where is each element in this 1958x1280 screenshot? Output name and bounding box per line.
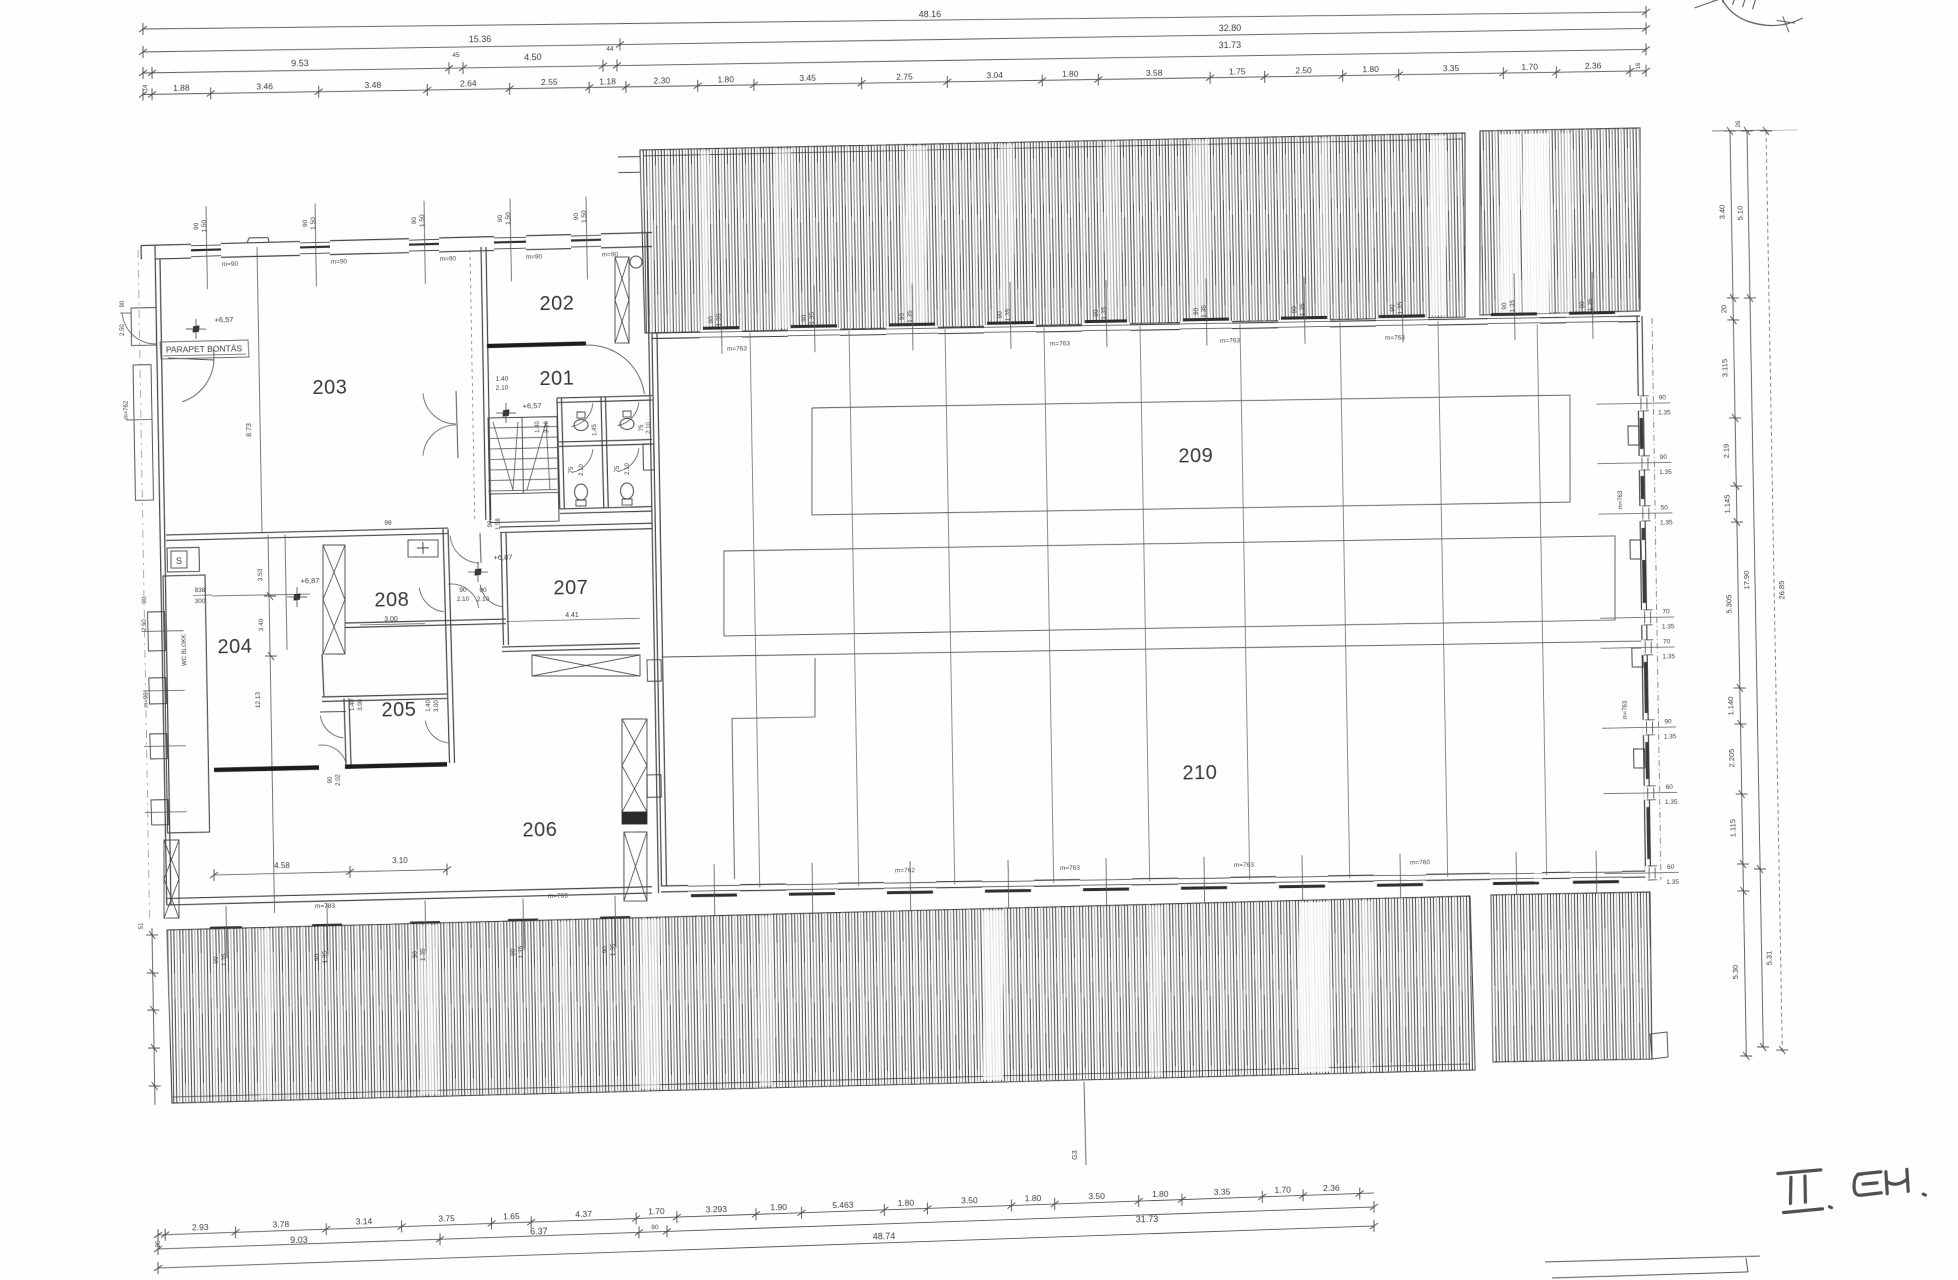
svg-text:202: 202 [539, 293, 574, 316]
svg-text:4.41: 4.41 [565, 612, 579, 619]
svg-text:1.35: 1.35 [322, 950, 329, 963]
svg-text:75: 75 [639, 424, 645, 431]
hall outer walls [651, 316, 1652, 895]
svg-text:1.50: 1.50 [505, 212, 512, 225]
svg-text:60: 60 [1667, 864, 1675, 871]
vertical reference line below bottom band [1071, 1082, 1086, 1165]
ventilation shaft right of 202 [614, 257, 631, 344]
svg-text:1.35: 1.35 [518, 945, 525, 958]
svg-text:1.35: 1.35 [1660, 519, 1673, 526]
svg-text:90: 90 [459, 587, 467, 594]
svg-text:3.10: 3.10 [544, 420, 550, 432]
door 205 right [425, 699, 448, 743]
svg-text:1.80: 1.80 [1152, 1189, 1169, 1199]
dimension line inside 206 [210, 855, 452, 881]
bottom dimension row 48.74 [154, 1220, 1379, 1274]
left wall upper window with arc [119, 299, 157, 345]
svg-text:G3: G3 [1072, 1150, 1079, 1160]
toilet block in 201 [557, 396, 654, 514]
svg-text:1.35: 1.35 [1662, 653, 1675, 660]
division line between 209 and 210 [662, 640, 1648, 658]
svg-text:1.80: 1.80 [1062, 69, 1079, 79]
svg-text:1.50: 1.50 [201, 219, 208, 232]
svg-text:1.140: 1.140 [1726, 697, 1735, 716]
door labels near stair hall [535, 419, 652, 437]
svg-text:3.50: 3.50 [961, 1195, 978, 1205]
svg-text:90: 90 [1193, 307, 1200, 315]
svg-text:1.35: 1.35 [1665, 799, 1678, 806]
svg-text:31.73: 31.73 [1219, 40, 1242, 50]
svg-text:2.50: 2.50 [142, 618, 148, 630]
hatched roof band bottom part B [1490, 892, 1668, 1062]
middle band rectangle [722, 535, 1616, 636]
svg-text:2.10: 2.10 [457, 596, 470, 603]
svg-text:m=90: m=90 [526, 253, 543, 260]
svg-text:300: 300 [194, 598, 205, 605]
svg-text:1.35: 1.35 [1299, 303, 1306, 316]
svg-text:12.13: 12.13 [255, 691, 262, 708]
svg-text:207: 207 [553, 577, 588, 600]
svg-text:90: 90 [1389, 304, 1396, 312]
svg-text:m=762: m=762 [124, 400, 130, 419]
svg-text:3.35: 3.35 [1443, 63, 1460, 73]
svg-text:2.64: 2.64 [460, 78, 477, 88]
svg-text:m=90: m=90 [144, 692, 150, 708]
windows on hall bottom wall [688, 848, 1623, 933]
svg-text:90: 90 [120, 300, 126, 307]
svg-text:90: 90 [1579, 301, 1586, 309]
partition line in room 203 [243, 247, 262, 533]
hall right wall notches [1628, 426, 1645, 768]
svg-text:90: 90 [510, 948, 517, 956]
svg-text:75: 75 [615, 465, 621, 472]
partial stamp circle top-right corner [1692, 0, 1803, 34]
svg-text:14: 14 [143, 84, 149, 91]
svg-text:15.36: 15.36 [469, 34, 492, 44]
svg-text:3.58: 3.58 [1146, 67, 1163, 77]
windows on hall top wall [699, 271, 1618, 354]
svg-text:2.50: 2.50 [120, 323, 126, 335]
svg-text:1.80: 1.80 [898, 1197, 915, 1207]
windows on left building top wall [190, 196, 619, 289]
svg-text:3.293: 3.293 [706, 1204, 728, 1214]
svg-text:1.35: 1.35 [1005, 308, 1012, 321]
wall between 203 zone and 204 zone [166, 523, 652, 540]
PARAPET BONTAS text [160, 340, 249, 359]
svg-text:2.36: 2.36 [1323, 1183, 1340, 1193]
svg-text:2.10: 2.10 [625, 462, 631, 474]
svg-text:2.19: 2.19 [1722, 444, 1731, 459]
top band left corner step [618, 156, 645, 172]
svg-text:1.40: 1.40 [496, 376, 509, 383]
svg-text:1.88: 1.88 [173, 83, 190, 93]
svg-text:3.46: 3.46 [256, 81, 273, 91]
svg-text:90: 90 [302, 219, 309, 227]
svg-text:+6,87: +6,87 [493, 553, 512, 562]
svg-text:+6,57: +6,57 [522, 401, 541, 410]
room 209 inner rectangle [810, 395, 1572, 516]
svg-text:90: 90 [411, 217, 418, 225]
m=763 labels below hall top wall [727, 334, 1406, 353]
white streaks in bottom band [257, 901, 1375, 1099]
room 205 [381, 699, 416, 722]
toilet fixtures [568, 411, 635, 507]
thick demolished wall under 202 [487, 342, 644, 396]
svg-text:1.35: 1.35 [1509, 299, 1516, 312]
svg-text:90: 90 [801, 314, 808, 322]
svg-text:60: 60 [1666, 784, 1674, 791]
door arc top-left of 203 [168, 350, 215, 402]
svg-text:m=760: m=760 [1410, 859, 1431, 866]
svg-text:m=765: m=765 [548, 893, 569, 900]
svg-text:1.70: 1.70 [1521, 62, 1538, 72]
svg-text:5.305: 5.305 [1724, 595, 1733, 614]
svg-text:90: 90 [193, 222, 200, 230]
svg-text:1.90: 1.90 [770, 1202, 787, 1212]
door into 207 [480, 584, 503, 607]
svg-text:70: 70 [1663, 638, 1671, 645]
hatched roof band top part 1 [640, 133, 1468, 333]
svg-text:1.35: 1.35 [1662, 623, 1675, 630]
svg-text:1.35: 1.35 [907, 310, 914, 323]
right dimension chain A [1716, 127, 1752, 1060]
svg-text:m=90: m=90 [602, 251, 619, 258]
hatched roof band top part 2 [1477, 128, 1643, 315]
svg-text:1.35: 1.35 [1201, 305, 1208, 318]
internal dimension line through 204/206 [252, 535, 291, 914]
left vertical dimension chain at bottom band [139, 922, 161, 1105]
svg-text:2.36: 2.36 [1585, 61, 1602, 71]
svg-text:201: 201 [539, 368, 574, 391]
wall between left building and hall [647, 233, 659, 893]
svg-text:5.31: 5.31 [1764, 951, 1773, 966]
svg-text:75: 75 [569, 466, 575, 473]
svg-text:5.30: 5.30 [1731, 965, 1740, 980]
left wall windows [141, 595, 187, 825]
svg-text:16: 16 [1636, 62, 1642, 69]
room 207 [505, 576, 640, 622]
svg-text:m=763: m=763 [1220, 337, 1241, 344]
m=783 label above bottom wall left building [315, 893, 569, 910]
svg-text:3.14: 3.14 [356, 1216, 373, 1226]
svg-text:90: 90 [1659, 394, 1667, 401]
svg-text:20: 20 [1719, 305, 1728, 313]
svg-text:m=763: m=763 [1234, 862, 1255, 869]
room 206 [522, 819, 557, 842]
top dimension row 9.53 / 4.50 / 31.73 [139, 28, 1651, 82]
title II. EM. handwritten [1778, 1168, 1926, 1213]
svg-text:1.80: 1.80 [717, 74, 734, 84]
svg-text:1.35: 1.35 [221, 953, 228, 966]
svg-text:2.75: 2.75 [896, 71, 913, 81]
windows on hall right wall [1596, 394, 1679, 887]
svg-text:9.53: 9.53 [291, 58, 309, 68]
svg-text:90: 90 [1664, 718, 1672, 725]
svg-text:3.10: 3.10 [392, 856, 408, 865]
svg-text:4.37: 4.37 [575, 1209, 592, 1219]
door into 205 left [320, 698, 365, 738]
svg-text:4.58: 4.58 [274, 861, 290, 870]
svg-text:1.35: 1.35 [1587, 298, 1594, 311]
level mark +6.57 in 201 [496, 401, 542, 423]
windows on bottom band top edge (left building side) [210, 896, 631, 967]
hall left wall notch [643, 444, 654, 470]
svg-text:98: 98 [384, 520, 392, 527]
svg-text:3.35: 3.35 [1214, 1187, 1231, 1197]
svg-text:3.75: 3.75 [438, 1213, 455, 1223]
svg-text:2.30: 2.30 [653, 75, 670, 85]
svg-text:m=90: m=90 [440, 256, 457, 263]
svg-text:50: 50 [1661, 504, 1669, 511]
svg-text:4.50: 4.50 [524, 52, 542, 62]
svg-text:m=763: m=763 [1385, 335, 1406, 342]
room 204 [193, 585, 311, 659]
svg-text:2.50: 2.50 [1295, 65, 1312, 75]
svg-text:1.35: 1.35 [809, 311, 816, 324]
svg-text:1.115: 1.115 [1728, 819, 1737, 837]
left wall of 205 [322, 654, 351, 766]
svg-text:3.78: 3.78 [272, 1219, 289, 1229]
bottom wall of 207 [502, 644, 640, 652]
double door from corridor to 203 [422, 376, 510, 459]
staircase in 201 [487, 416, 559, 522]
svg-text:90: 90 [651, 1224, 659, 1231]
svg-text:1.98: 1.98 [496, 517, 502, 529]
hatched roof band bottom part A [167, 896, 1475, 1103]
left wall protruding bay [123, 365, 153, 501]
property dash-dot line right of hall [1651, 318, 1662, 880]
top dimension row with bay segments [139, 57, 1650, 103]
svg-text:31.73: 31.73 [1136, 1214, 1159, 1224]
top dimension row 15.36 / 32.80 [139, 14, 1650, 61]
left building right wall jogs [645, 660, 663, 798]
svg-text:210: 210 [1182, 762, 1217, 785]
svg-text:3.04: 3.04 [986, 70, 1003, 80]
svg-text:1.35: 1.35 [1101, 306, 1108, 319]
svg-text:1.50: 1.50 [581, 210, 588, 223]
svg-text:1.35: 1.35 [716, 313, 723, 326]
svg-text:90: 90 [1291, 306, 1298, 314]
svg-text:5.463: 5.463 [832, 1200, 854, 1210]
svg-text:2.10: 2.10 [496, 385, 509, 392]
room 208 [359, 588, 425, 625]
svg-text:3.50: 3.50 [1088, 1191, 1105, 1201]
svg-text:206: 206 [522, 819, 557, 842]
svg-text:1.45: 1.45 [592, 424, 598, 436]
svg-text:1.80: 1.80 [1362, 64, 1379, 74]
svg-text:90: 90 [328, 776, 334, 783]
svg-text:5.10: 5.10 [1735, 206, 1744, 221]
svg-text:26: 26 [1736, 120, 1742, 127]
room 210 step contour [731, 658, 819, 879]
svg-text:209: 209 [1178, 445, 1213, 468]
svg-text:1.50: 1.50 [419, 214, 426, 227]
right dimension chain C [1760, 127, 1794, 1054]
X shaft bottom-left of building [163, 840, 181, 918]
room 203 [312, 377, 347, 400]
svg-text:1.80: 1.80 [1025, 1193, 1042, 1203]
svg-text:9.03: 9.03 [290, 1235, 308, 1245]
svg-text:3.00: 3.00 [434, 700, 440, 712]
svg-text:2.10: 2.10 [646, 421, 652, 433]
left wall of 207 [501, 533, 508, 645]
top wall of 205 [322, 694, 447, 701]
right chains top connector ticks [1712, 119, 1798, 131]
small circle at 202 corner [630, 256, 642, 268]
svg-text:90: 90 [899, 313, 906, 321]
svg-text:204: 204 [217, 636, 252, 659]
svg-text:m=763: m=763 [1623, 700, 1629, 719]
svg-text:32.80: 32.80 [1219, 23, 1242, 33]
svg-text:90: 90 [573, 212, 580, 220]
svg-text:m=763: m=763 [1618, 490, 1624, 509]
svg-text:51: 51 [139, 922, 145, 929]
level mark +6.87 near 208 [468, 553, 513, 582]
narrow room left of 204 [163, 547, 210, 833]
cut-off drawing fragment bottom right [1545, 1256, 1760, 1278]
X shaft between 204 and 208 [321, 545, 347, 655]
wall under 208 [345, 619, 506, 628]
svg-text:m=783: m=783 [315, 903, 336, 910]
svg-text:48.16: 48.16 [919, 9, 942, 19]
svg-text:1.35: 1.35 [1658, 409, 1671, 416]
svg-text:1.40: 1.40 [426, 699, 432, 711]
left edge outer dash line [138, 250, 150, 920]
svg-text:3.00: 3.00 [358, 698, 364, 710]
svg-text:1.145: 1.145 [1722, 495, 1731, 514]
svg-text:+6,87: +6,87 [300, 576, 319, 585]
svg-text:1.50: 1.50 [310, 217, 317, 230]
svg-text:m=762: m=762 [895, 867, 916, 874]
svg-text:1.40: 1.40 [350, 698, 356, 710]
svg-text:2.10: 2.10 [579, 463, 585, 475]
svg-text:WC BLOKK: WC BLOKK [182, 634, 189, 666]
svg-text:2.02: 2.02 [336, 773, 342, 785]
X shafts on right wall of 206 [620, 719, 650, 902]
svg-text:208: 208 [374, 589, 409, 612]
svg-text:3.45: 3.45 [799, 73, 816, 83]
svg-text:1.35: 1.35 [610, 943, 617, 956]
svg-text:6.37: 6.37 [530, 1226, 548, 1236]
svg-text:90: 90 [497, 215, 504, 223]
svg-text:1.75: 1.75 [1229, 66, 1246, 76]
vent box with cross at top of 208 [408, 540, 439, 558]
top dimension row 48.16 [139, 0, 1650, 44]
white streaks in top band [697, 133, 1575, 330]
svg-text:1.70: 1.70 [648, 1206, 665, 1216]
svg-text:1.35: 1.35 [420, 948, 427, 961]
svg-text:90: 90 [708, 316, 715, 324]
svg-text:90: 90 [213, 956, 220, 964]
svg-text:m=90: m=90 [331, 258, 348, 265]
svg-text:17.90: 17.90 [1742, 571, 1751, 590]
svg-text:90: 90 [1660, 454, 1668, 461]
svg-text:2.55: 2.55 [541, 77, 558, 87]
svg-text:1.35: 1.35 [1659, 469, 1672, 476]
corridor doors at 204 zone top [384, 517, 502, 564]
right wall of 208/205 [443, 529, 454, 763]
svg-text:90: 90 [488, 520, 494, 527]
right dimension chain B [1734, 127, 1775, 1052]
svg-text:3.115: 3.115 [1720, 359, 1729, 377]
svg-text:3.40: 3.40 [258, 618, 265, 631]
bottom dimension row with bay segments [153, 1182, 1374, 1241]
svg-text:70: 70 [1662, 608, 1670, 615]
svg-text:3.48: 3.48 [365, 80, 382, 90]
svg-text:1.18: 1.18 [599, 76, 616, 86]
svg-text:1.35: 1.35 [1397, 301, 1404, 314]
level mark +6.57 in 203 [186, 315, 234, 339]
svg-text:90: 90 [142, 596, 148, 603]
svg-text:203: 203 [312, 377, 347, 400]
svg-text:3.40: 3.40 [1717, 205, 1726, 220]
room 202 [539, 293, 574, 316]
svg-text:205: 205 [381, 699, 416, 722]
svg-text:1.35: 1.35 [1664, 733, 1677, 740]
door 208 to 207 with arcs [419, 583, 490, 612]
svg-text:m=763: m=763 [1060, 865, 1081, 872]
svg-text:26: 26 [156, 1240, 162, 1247]
hall column grid lines [750, 319, 1547, 889]
svg-text:44: 44 [606, 46, 614, 53]
svg-text:90: 90 [1093, 309, 1100, 317]
svg-text:8.73: 8.73 [246, 423, 253, 437]
svg-text:S: S [176, 556, 182, 566]
svg-text:838: 838 [194, 587, 205, 594]
wall between 203 and 202/201 [481, 247, 491, 520]
bottom dimension row 9.03 / 6.37 / 31.73 [153, 1201, 1378, 1255]
svg-text:m=90: m=90 [222, 261, 239, 268]
svg-text:+6,57: +6,57 [214, 315, 233, 324]
svg-text:1.35: 1.35 [1666, 879, 1679, 886]
thick demolished wall bottom of 204/205 [214, 743, 448, 788]
level mark +6.87 in 204 corridor [287, 576, 320, 607]
svg-text:2.205: 2.205 [1727, 749, 1736, 768]
svg-text:1.40: 1.40 [535, 420, 541, 432]
crossed beam box below 207 [532, 653, 641, 678]
svg-text:45: 45 [452, 52, 460, 59]
m=762 labels above hall bottom wall [895, 858, 1431, 875]
svg-text:90: 90 [997, 311, 1004, 319]
room 201 [539, 368, 574, 391]
svg-text:90: 90 [314, 953, 321, 961]
corridor dotted line right of 203 [470, 250, 475, 520]
svg-text:m=763: m=763 [1050, 340, 1071, 347]
svg-text:1.65: 1.65 [503, 1211, 520, 1221]
svg-text:m=763: m=763 [727, 346, 748, 353]
svg-text:48.74: 48.74 [873, 1231, 896, 1241]
svg-text:1.70: 1.70 [1274, 1185, 1291, 1195]
svg-text:3.53: 3.53 [257, 568, 264, 581]
left building outer walls [141, 231, 664, 906]
svg-text:90: 90 [412, 951, 419, 959]
svg-text:26.85: 26.85 [1777, 581, 1786, 600]
svg-text:90: 90 [1501, 302, 1508, 310]
svg-text:PARAPET BONTÁS: PARAPET BONTÁS [166, 343, 243, 354]
svg-text:90: 90 [602, 946, 609, 954]
svg-text:2.93: 2.93 [192, 1222, 209, 1232]
